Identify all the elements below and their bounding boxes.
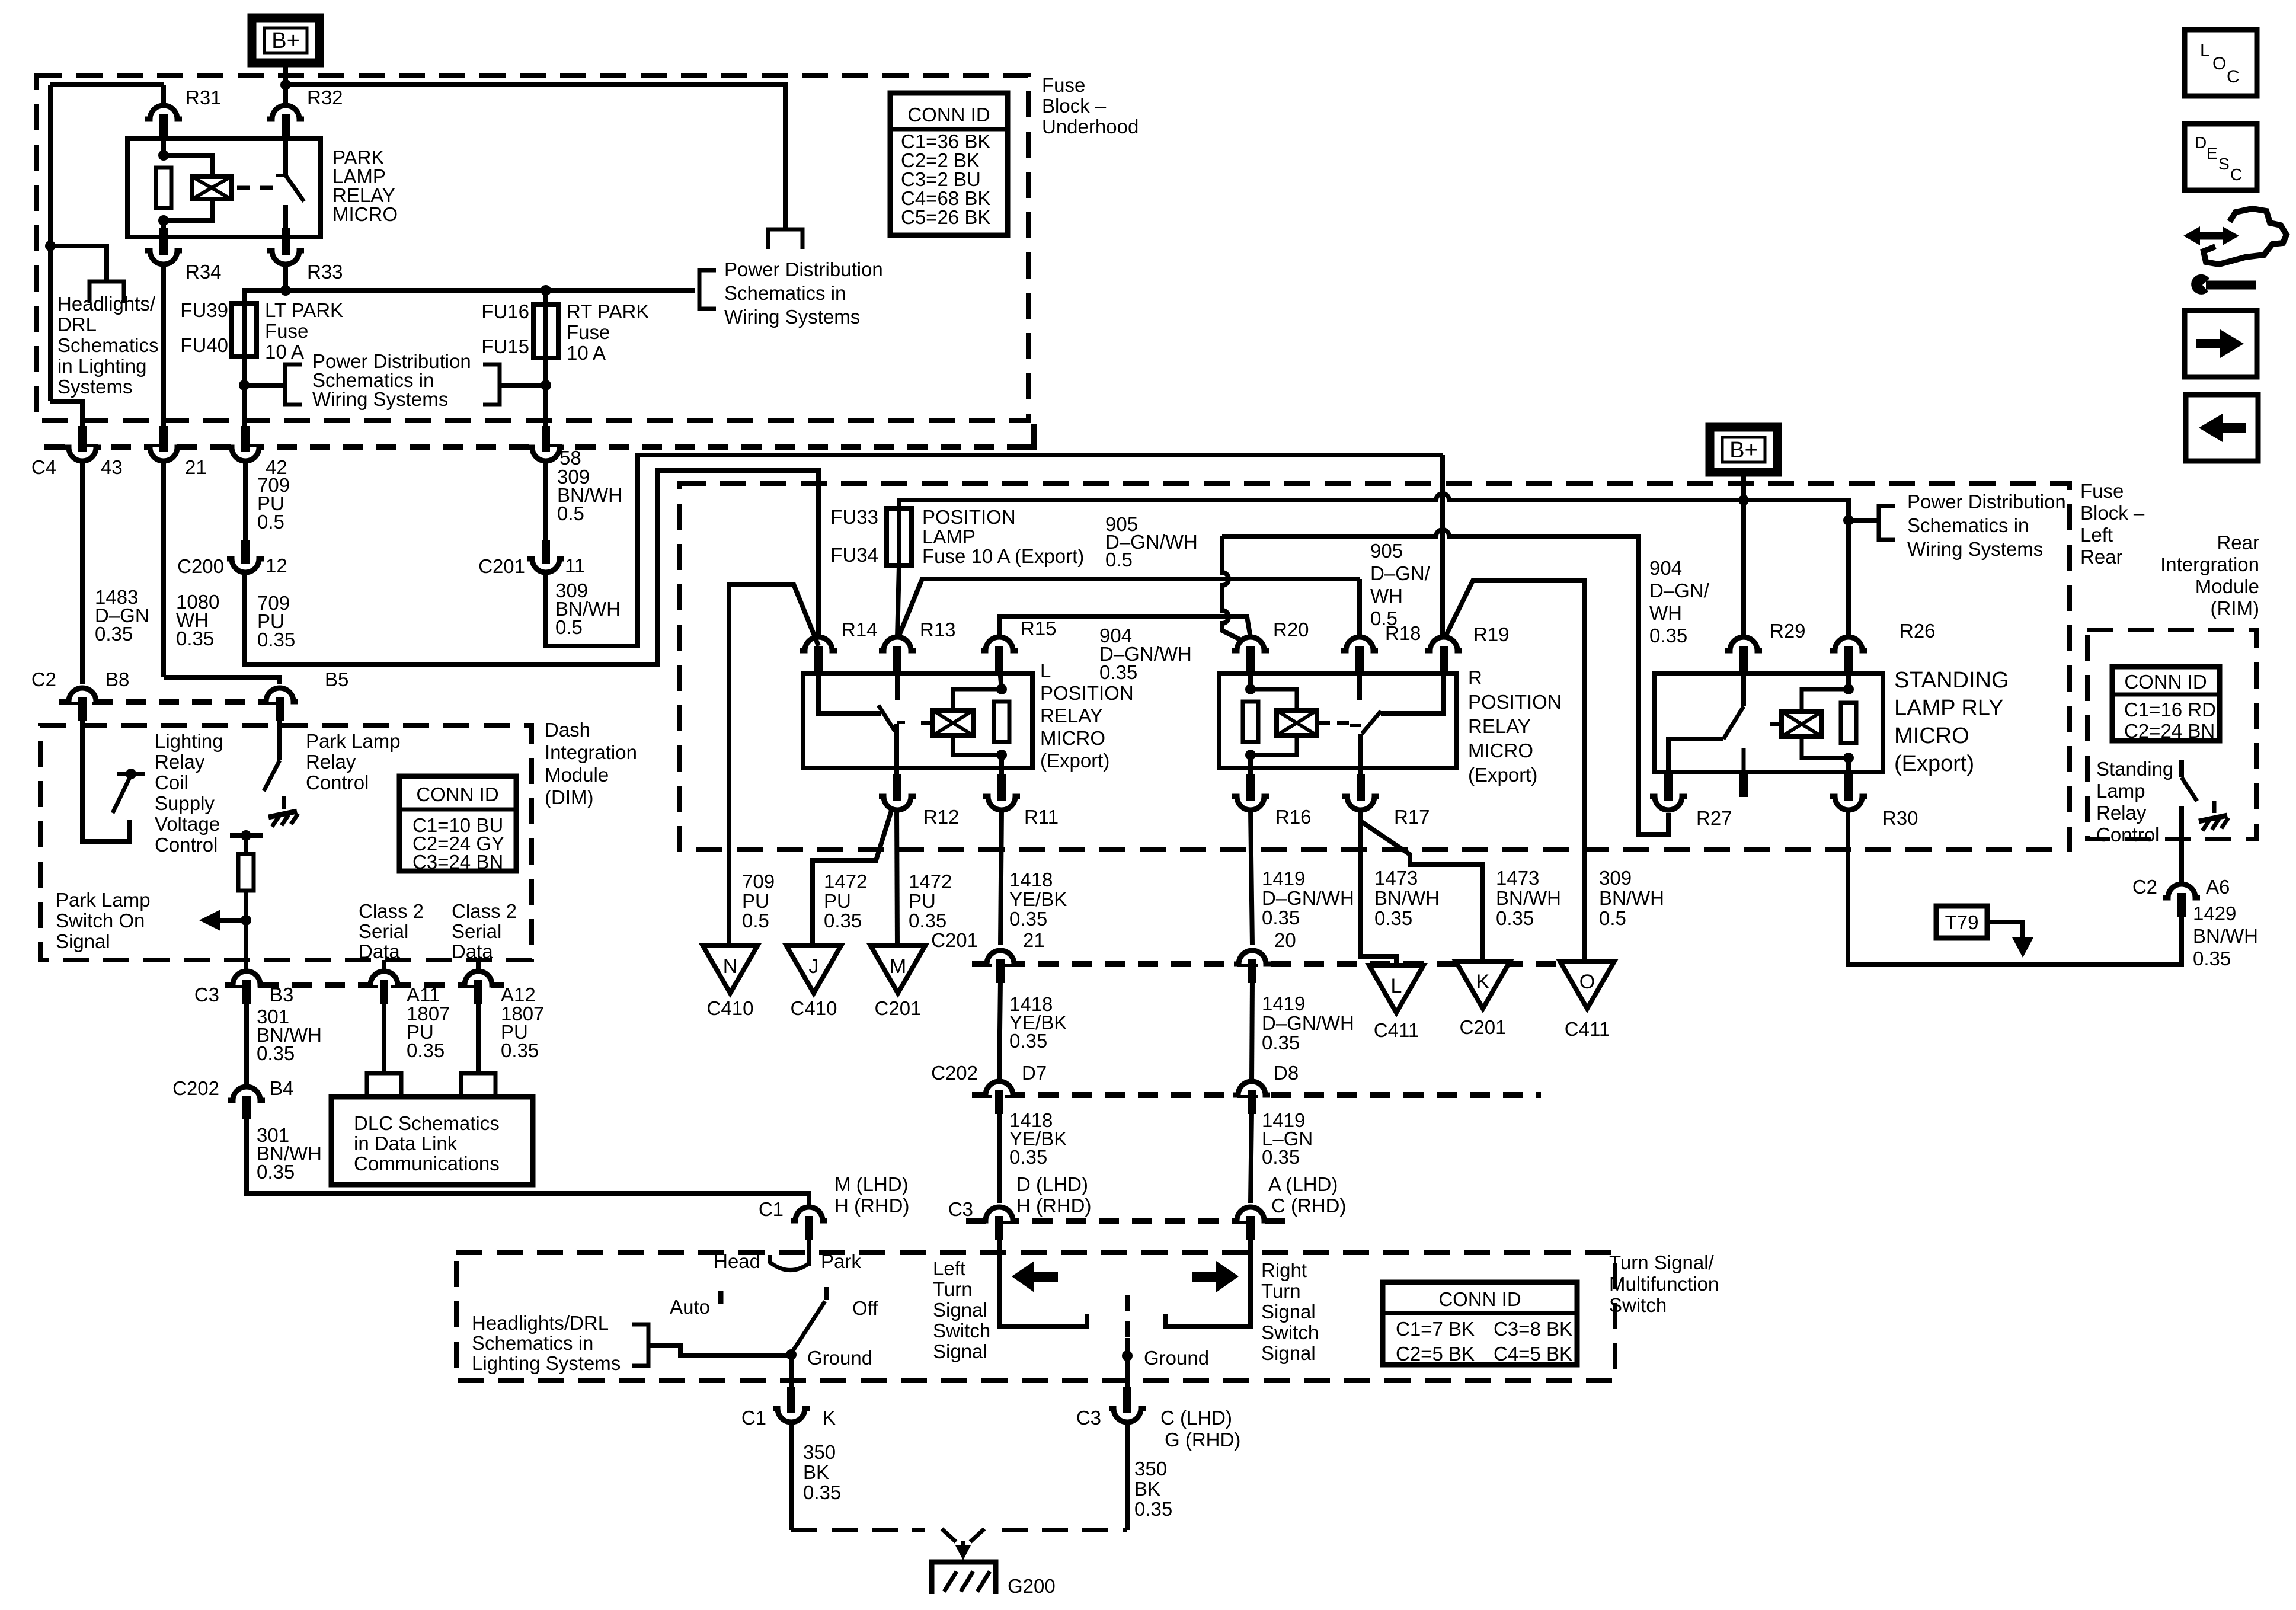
wire: left branch down to C4-43 bbox=[50, 401, 82, 441]
connector C4-42 bbox=[233, 447, 258, 460]
module box: Turn Signal/Multifunction Switch (dashed) bbox=[456, 1253, 1615, 1381]
wire fixed contact to R12 bbox=[894, 724, 899, 783]
svg-text:Fuse: Fuse bbox=[1042, 74, 1085, 96]
wire: right bracket to RT fuse wire bbox=[500, 383, 546, 388]
connector C202-D8 bbox=[1239, 1083, 1264, 1095]
svg-text:R26: R26 bbox=[1900, 620, 1936, 642]
svg-text:Head: Head bbox=[714, 1250, 760, 1272]
wire: FU15 down to junction bbox=[543, 358, 548, 408]
svg-text:BN/WH: BN/WH bbox=[1496, 887, 1561, 909]
wire 904 trunk with hops down to R20 bbox=[1222, 536, 1246, 642]
svg-text:FU39: FU39 bbox=[180, 299, 228, 321]
svg-text:STANDING: STANDING bbox=[1894, 668, 2009, 693]
svg-text:MICRO: MICRO bbox=[1040, 727, 1105, 749]
svg-text:PU: PU bbox=[909, 890, 936, 912]
wire: down to C4 row 58 bbox=[543, 385, 548, 441]
svg-text:C410: C410 bbox=[707, 997, 754, 1019]
svg-text:RELAY: RELAY bbox=[1040, 705, 1103, 726]
CONN ID table DIM bbox=[399, 776, 516, 871]
fuse POSITION LAMP FU33/FU34 bbox=[887, 508, 912, 565]
svg-text:C3: C3 bbox=[1076, 1407, 1101, 1429]
svg-text:M: M bbox=[890, 955, 906, 978]
svg-text:0.35: 0.35 bbox=[95, 623, 133, 645]
svg-text:R30: R30 bbox=[1882, 807, 1918, 829]
connector R27 bbox=[1656, 796, 1681, 809]
svg-text:BN/WH: BN/WH bbox=[1374, 887, 1440, 909]
wire R13 pin open end bbox=[895, 664, 900, 700]
triangle O (to C411) bbox=[1560, 961, 1614, 1009]
svg-text:Relay: Relay bbox=[155, 751, 205, 773]
svg-text:MICRO: MICRO bbox=[332, 203, 398, 225]
svg-text:DLC Schematics: DLC Schematics bbox=[354, 1112, 500, 1134]
svg-text:709: 709 bbox=[742, 870, 775, 892]
svg-text:R32: R32 bbox=[307, 87, 343, 108]
svg-text:0.5: 0.5 bbox=[1599, 907, 1626, 929]
connector R17 bbox=[1348, 796, 1373, 809]
bracket ] headlights/DRL bbox=[632, 1324, 648, 1366]
power symbol B+ (underhood) bbox=[252, 18, 319, 63]
svg-text:(RIM): (RIM) bbox=[2211, 597, 2259, 619]
connector C202-B4 bbox=[234, 1088, 259, 1100]
svg-text:Lighting: Lighting bbox=[155, 730, 223, 752]
junction dot below RT fuse bbox=[541, 380, 551, 391]
svg-text:Switch On: Switch On bbox=[56, 910, 145, 932]
connector R15 bbox=[987, 638, 1012, 651]
park lamp relay switch blade bbox=[264, 760, 280, 791]
ground stub DIM bbox=[282, 796, 286, 809]
svg-text:1472: 1472 bbox=[824, 870, 867, 892]
svg-text:C202: C202 bbox=[172, 1077, 219, 1099]
svg-text:43: 43 bbox=[101, 456, 123, 478]
svg-text:Block –: Block – bbox=[2080, 502, 2145, 524]
svg-text:0.35: 0.35 bbox=[824, 910, 862, 932]
svg-text:0.35: 0.35 bbox=[2193, 948, 2231, 969]
svg-text:10 A: 10 A bbox=[265, 341, 304, 363]
connector R31 bbox=[151, 107, 176, 119]
junction dot relay coil top bbox=[158, 150, 169, 161]
junction dot right ground bbox=[1122, 1350, 1133, 1361]
wire: FU40 to junction bbox=[242, 357, 247, 385]
svg-text:MICRO: MICRO bbox=[1468, 740, 1533, 761]
svg-text:Data: Data bbox=[452, 940, 493, 962]
svg-text:0.5: 0.5 bbox=[257, 511, 284, 533]
switch lower stub (NC) bbox=[1742, 748, 1746, 772]
svg-text:C201: C201 bbox=[931, 929, 978, 951]
svg-text:L: L bbox=[1040, 660, 1051, 681]
junction dots R relay bbox=[1245, 684, 1256, 694]
svg-text:R18: R18 bbox=[1385, 622, 1421, 644]
off-page bracket to Power Distribution (top) bbox=[768, 229, 802, 249]
connector C2-B8 bbox=[70, 689, 95, 702]
wire coil bottom to R11 bbox=[999, 755, 1004, 783]
wire: bus left toward R31 bbox=[50, 82, 164, 87]
svg-text:Serial: Serial bbox=[452, 920, 501, 942]
svg-text:Wiring Systems: Wiring Systems bbox=[312, 388, 448, 410]
ground symbol G200 bbox=[932, 1562, 996, 1594]
svg-text:C: C bbox=[2227, 67, 2240, 87]
svg-text:Power Distribution: Power Distribution bbox=[724, 258, 883, 280]
coil loop R relay bbox=[1251, 689, 1297, 710]
svg-text:Standing: Standing bbox=[2096, 758, 2173, 780]
park lamp switch-on terminal bar bbox=[230, 833, 263, 838]
icon box LOC bbox=[2185, 30, 2257, 96]
svg-text:Lighting Systems: Lighting Systems bbox=[472, 1352, 621, 1374]
wire B4 down and right to turn signal C1 bbox=[247, 1117, 809, 1208]
svg-text:Rear: Rear bbox=[2080, 546, 2123, 568]
wire 309 BN/WH below C201 to long bus bbox=[546, 455, 1443, 646]
icon car with arrows and wrench bbox=[2204, 209, 2287, 264]
wire 904: R15 up and right to R20 bbox=[999, 617, 1251, 638]
svg-text:Lamp: Lamp bbox=[2096, 780, 2145, 802]
wire 905 down to R18 bbox=[1357, 579, 1362, 638]
junction dots standing relay bbox=[1843, 684, 1854, 694]
wire C1 into head/park selector bbox=[807, 1237, 811, 1266]
dashed linkage right switch bbox=[1125, 1295, 1130, 1338]
lighting relay switch contact bar bbox=[117, 772, 145, 776]
svg-text:Rear: Rear bbox=[2217, 532, 2259, 553]
relay box: R POSITION RELAY MICRO bbox=[1219, 673, 1457, 768]
connector row C201 21/20 (dashed) bbox=[972, 961, 1612, 967]
module box: Fuse Block - Underhood (dashed) bbox=[36, 76, 1028, 421]
connector R20 bbox=[1238, 638, 1263, 651]
svg-text:S: S bbox=[2218, 155, 2230, 173]
connector C200-12 bbox=[233, 559, 258, 571]
wire 1080 WH from 21 down bbox=[161, 461, 166, 677]
wire R12 branch to J triangle bbox=[813, 811, 891, 946]
junction dot arrow bbox=[241, 915, 251, 926]
relay coil X symbol bbox=[192, 177, 231, 199]
junction dot RT fuse top bbox=[541, 285, 551, 296]
junction dot B+ bus left rear bbox=[1738, 495, 1749, 505]
svg-text:R16: R16 bbox=[1275, 806, 1312, 828]
svg-text:0.35: 0.35 bbox=[1099, 661, 1137, 683]
svg-text:D7: D7 bbox=[1022, 1062, 1047, 1084]
wire: top bus from B+ junction right bbox=[286, 85, 785, 229]
svg-text:C4=5 BK: C4=5 BK bbox=[1494, 1343, 1572, 1365]
connector C201-21 (mid) bbox=[988, 952, 1013, 964]
wire 21 down to C202-D7 bbox=[999, 981, 1000, 1082]
svg-text:Wiring Systems: Wiring Systems bbox=[1907, 538, 2043, 560]
junction dot switch ground bbox=[786, 1349, 797, 1360]
wire D8 down to turn signal A/C bbox=[1251, 1112, 1252, 1203]
wire: junction to left bracket bbox=[244, 383, 285, 388]
svg-text:POSITION: POSITION bbox=[1040, 682, 1134, 704]
ground V-break and arrow bbox=[942, 1529, 956, 1542]
junction dot at B+ bus bbox=[280, 79, 291, 90]
junction dot switch bar bbox=[126, 769, 136, 779]
svg-text:H (RHD): H (RHD) bbox=[1016, 1195, 1091, 1217]
svg-text:0.35: 0.35 bbox=[1009, 908, 1047, 930]
svg-text:LAMP: LAMP bbox=[922, 526, 976, 548]
connector 20 (mid) bbox=[1240, 952, 1265, 964]
junction dot relay coil bottom bbox=[158, 215, 169, 226]
svg-text:T79: T79 bbox=[1945, 911, 1979, 933]
svg-text:R11: R11 bbox=[1024, 806, 1059, 828]
svg-text:Park: Park bbox=[821, 1250, 861, 1272]
svg-text:RELAY: RELAY bbox=[1468, 715, 1531, 737]
905 branch diagonal at R13 bbox=[897, 579, 1360, 640]
CONN ID table turn signal bbox=[1383, 1282, 1577, 1365]
svg-text:L: L bbox=[2200, 41, 2210, 60]
wire left turn signal into switch bbox=[999, 1237, 1087, 1326]
svg-text:Park Lamp: Park Lamp bbox=[306, 730, 401, 752]
wire R20 pin to resistor top bbox=[1248, 664, 1253, 689]
connector R13 bbox=[885, 638, 910, 651]
svg-text:B5: B5 bbox=[325, 668, 348, 690]
svg-text:Signal: Signal bbox=[1261, 1342, 1316, 1364]
wire to headlights bracket bbox=[648, 1346, 791, 1356]
wire right ground bbox=[1125, 1338, 1130, 1400]
svg-text:Control: Control bbox=[2096, 824, 2159, 846]
wire D7 down to turn signal C3 bbox=[997, 1112, 1002, 1203]
coil loop L relay bbox=[953, 689, 1002, 710]
relay box: PARK LAMP RELAY MICRO bbox=[127, 139, 321, 237]
wire: B+ down to bus junction bbox=[283, 63, 288, 95]
svg-text:0.35: 0.35 bbox=[1009, 1030, 1047, 1052]
svg-text:C: C bbox=[2230, 165, 2242, 184]
wire R17 straight down to L triangle bbox=[1361, 809, 1396, 965]
svg-text:Right: Right bbox=[1261, 1259, 1307, 1281]
connector C3-B3 bbox=[234, 972, 259, 985]
svg-text:H (RHD): H (RHD) bbox=[834, 1195, 909, 1217]
connector R11 bbox=[989, 796, 1014, 809]
svg-text:in Data Link: in Data Link bbox=[354, 1132, 458, 1154]
off-page bracket Headlights/DRL bbox=[89, 281, 124, 303]
svg-text:POSITION: POSITION bbox=[1468, 691, 1562, 713]
connector row C4 (dashed) bbox=[44, 444, 1018, 450]
wire: FU39 branch down from junction to C4 row 42 bbox=[242, 385, 247, 441]
svg-text:Schematics in: Schematics in bbox=[1907, 514, 2029, 536]
wire: R31 pin into relay bbox=[161, 135, 166, 155]
switch tick R relay bbox=[1350, 724, 1361, 727]
svg-text:DRL: DRL bbox=[57, 313, 97, 335]
switch blade R relay bbox=[1362, 711, 1381, 734]
svg-text:12: 12 bbox=[266, 555, 287, 577]
svg-text:C2=5 BK: C2=5 BK bbox=[1396, 1343, 1475, 1365]
wire resistor to R30 bbox=[1846, 758, 1851, 783]
svg-text:R13: R13 bbox=[920, 619, 956, 641]
svg-text:LT PARK: LT PARK bbox=[265, 299, 343, 321]
svg-text:R14: R14 bbox=[842, 619, 878, 641]
svg-text:Headlights/DRL: Headlights/DRL bbox=[472, 1312, 609, 1334]
wire: B+ bus left to POSITION LAMP fuse bbox=[899, 494, 1744, 508]
svg-text:C201: C201 bbox=[875, 997, 922, 1019]
wire A12 stub above bbox=[476, 960, 481, 972]
svg-text:0.35: 0.35 bbox=[176, 628, 214, 649]
svg-text:Class 2: Class 2 bbox=[359, 900, 424, 922]
coil X standing relay bbox=[1782, 712, 1822, 737]
connector C2-A6 bbox=[2169, 885, 2194, 898]
svg-text:C201: C201 bbox=[1460, 1016, 1507, 1038]
triangle L (to C411) bbox=[1369, 965, 1424, 1013]
wire: coil branch top bbox=[164, 155, 212, 176]
ground rake DIM bbox=[268, 811, 297, 817]
svg-text:BN/WH: BN/WH bbox=[2193, 925, 2258, 947]
svg-text:M (LHD): M (LHD) bbox=[834, 1173, 909, 1195]
fuse RT PARK FU16/FU15 bbox=[533, 305, 558, 358]
wire RIM control down to C2 bbox=[2179, 806, 2184, 884]
svg-text:(DIM): (DIM) bbox=[545, 786, 593, 808]
svg-text:C202: C202 bbox=[931, 1062, 978, 1084]
svg-text:R33: R33 bbox=[307, 261, 343, 283]
svg-text:C (LHD): C (LHD) bbox=[1160, 1407, 1232, 1429]
connector R29 bbox=[1731, 638, 1756, 651]
svg-text:C1=16 RD: C1=16 RD bbox=[2124, 699, 2216, 721]
svg-text:0.35: 0.35 bbox=[257, 1161, 295, 1183]
coil X R relay bbox=[1277, 710, 1317, 735]
svg-text:CONN ID: CONN ID bbox=[1438, 1288, 1521, 1310]
wire: fuse bus right to FU16 bbox=[286, 290, 546, 305]
auto-off switch blade bbox=[791, 1301, 825, 1353]
svg-text:C3: C3 bbox=[948, 1198, 973, 1220]
svg-text:Schematics in: Schematics in bbox=[724, 282, 846, 304]
connector row C3/C202 (dashed) bbox=[225, 982, 504, 988]
svg-text:C1=7 BK: C1=7 BK bbox=[1396, 1318, 1475, 1340]
svg-text:Multifunction: Multifunction bbox=[1609, 1273, 1719, 1295]
connector R12 bbox=[885, 796, 910, 809]
relay box: L POSITION RELAY MICRO bbox=[803, 673, 1032, 768]
resistor R relay bbox=[1243, 702, 1258, 742]
wire B3 down to C202 bbox=[244, 1001, 249, 1087]
svg-text:Switch: Switch bbox=[933, 1320, 990, 1342]
resistor L relay bbox=[994, 702, 1009, 742]
reference box T79 with arrow bbox=[1936, 906, 1987, 938]
svg-text:0.5: 0.5 bbox=[1105, 549, 1133, 571]
svg-text:Integration: Integration bbox=[545, 741, 637, 763]
svg-text:Control: Control bbox=[306, 772, 369, 793]
junction dot fuse bus bbox=[280, 285, 291, 296]
CONN ID table RIM bbox=[2112, 667, 2220, 741]
svg-text:350: 350 bbox=[1134, 1458, 1167, 1480]
svg-text:C411: C411 bbox=[1565, 1018, 1610, 1040]
svg-text:0.35: 0.35 bbox=[1262, 1146, 1300, 1168]
svg-text:R20: R20 bbox=[1273, 619, 1309, 641]
wire 309 BN/WH from 58 to C201 bbox=[543, 461, 548, 545]
svg-text:(Export): (Export) bbox=[1894, 751, 1974, 776]
svg-text:Left: Left bbox=[933, 1257, 965, 1279]
svg-text:R19: R19 bbox=[1473, 623, 1510, 645]
connector A/C (right turn) bbox=[1238, 1208, 1263, 1221]
svg-text:Turn: Turn bbox=[933, 1278, 973, 1300]
svg-text:1472: 1472 bbox=[909, 870, 952, 892]
svg-text:Fuse 10 A (Export): Fuse 10 A (Export) bbox=[922, 545, 1084, 567]
connector C4-58 bbox=[533, 447, 558, 460]
svg-text:O: O bbox=[2212, 54, 2226, 73]
svg-text:0.5: 0.5 bbox=[742, 910, 769, 932]
svg-text:FU15: FU15 bbox=[481, 335, 529, 357]
svg-text:0.5: 0.5 bbox=[557, 502, 584, 524]
svg-text:Off: Off bbox=[852, 1297, 878, 1319]
wire 1483 D-GN from 43 to C2-B8 bbox=[80, 461, 85, 684]
svg-text:YE/BK: YE/BK bbox=[1009, 888, 1067, 910]
svg-text:C3=24 BN: C3=24 BN bbox=[412, 851, 503, 873]
svg-text:Turn Signal/: Turn Signal/ bbox=[1609, 1251, 1715, 1273]
wire 709 PU below C200 bbox=[245, 470, 818, 664]
svg-text:0.5: 0.5 bbox=[555, 616, 583, 638]
svg-text:R: R bbox=[1468, 667, 1482, 689]
bracket DLC A12 bbox=[461, 1073, 495, 1094]
svg-text:D–GN/: D–GN/ bbox=[1370, 562, 1431, 584]
svg-text:C4: C4 bbox=[31, 456, 56, 478]
wire R18 pin open end bbox=[1357, 664, 1362, 700]
svg-text:L: L bbox=[1391, 975, 1402, 997]
wire 904 trunk right to R27 drop bbox=[1222, 530, 1668, 834]
svg-text:Park Lamp: Park Lamp bbox=[56, 889, 151, 911]
connector A12 bbox=[466, 972, 491, 985]
svg-text:Fuse: Fuse bbox=[2080, 480, 2124, 502]
relay coil resistor bbox=[156, 168, 171, 208]
wire A11 stub above bbox=[382, 960, 386, 972]
icon box arrow left bbox=[2186, 395, 2258, 461]
svg-text:B+: B+ bbox=[1729, 438, 1758, 463]
bracket [ top power dist text bbox=[699, 270, 716, 309]
coil stub left bbox=[921, 721, 933, 725]
bracket ] right of center text bbox=[483, 364, 500, 405]
svg-text:C1: C1 bbox=[741, 1407, 766, 1429]
wire pivot to R17 bbox=[1358, 734, 1363, 783]
switch blade standing relay bbox=[1723, 706, 1744, 739]
svg-text:0.35: 0.35 bbox=[407, 1039, 445, 1061]
module box: Rear Integration Module RIM (dashed) bbox=[2087, 630, 2256, 839]
connector C4-21 bbox=[151, 447, 176, 460]
svg-text:Supply: Supply bbox=[155, 792, 215, 814]
box: DLC Schematics in Data Link Communications bbox=[331, 1097, 533, 1185]
wire fuse down to R13 bbox=[897, 565, 899, 638]
svg-text:in Lighting: in Lighting bbox=[57, 355, 146, 377]
wire resistor down bbox=[244, 891, 248, 972]
wire: R31 drop bbox=[161, 85, 166, 105]
svg-text:Signal: Signal bbox=[933, 1299, 987, 1321]
wire K down bbox=[789, 1421, 794, 1530]
svg-text:N: N bbox=[723, 955, 738, 978]
connector R18 bbox=[1347, 638, 1372, 651]
svg-text:0.35: 0.35 bbox=[1134, 1498, 1172, 1520]
wire: R34 down to C4 row 21 bbox=[161, 264, 166, 441]
wire: R33 down to fuse bus bbox=[283, 264, 288, 290]
svg-text:C410: C410 bbox=[791, 997, 837, 1019]
svg-text:WH: WH bbox=[1649, 602, 1682, 624]
svg-text:PU: PU bbox=[824, 890, 851, 912]
svg-text:0.35: 0.35 bbox=[1262, 907, 1300, 929]
wire 309: R19 diagonal to O-wire bbox=[1444, 581, 1584, 960]
wire: coil branch bottom bbox=[164, 200, 212, 220]
svg-text:B8: B8 bbox=[105, 668, 129, 690]
svg-text:309: 309 bbox=[1599, 867, 1632, 889]
svg-text:PU: PU bbox=[742, 890, 769, 912]
wire elbow to B5 bbox=[164, 677, 280, 684]
junction dot terminal bar bbox=[241, 830, 251, 841]
wire: fuse bus left to FU39 bbox=[244, 290, 286, 303]
connector C3-C/G bbox=[1115, 1409, 1140, 1421]
svg-text:Schematics in: Schematics in bbox=[472, 1332, 593, 1354]
svg-text:0.35: 0.35 bbox=[1496, 907, 1534, 929]
wire: B+ bus right bbox=[1744, 500, 1849, 638]
svg-text:C1: C1 bbox=[759, 1198, 784, 1220]
wire: R32 drop from junction bbox=[283, 95, 288, 105]
svg-text:1473: 1473 bbox=[1496, 867, 1539, 889]
svg-text:0.35: 0.35 bbox=[803, 1481, 841, 1503]
wire to resistor bbox=[244, 836, 248, 854]
bracket [ to Power Distribution center bbox=[285, 364, 302, 405]
wire: left drop to Headlights/DRL branch bbox=[48, 85, 53, 401]
head/park selector curve bbox=[770, 1255, 809, 1270]
svg-text:Systems: Systems bbox=[57, 376, 133, 398]
wire C down bbox=[1125, 1421, 1130, 1530]
power symbol B+ (left rear) bbox=[1710, 427, 1777, 472]
connector R19 bbox=[1431, 638, 1456, 651]
svg-text:Switch: Switch bbox=[1609, 1294, 1667, 1316]
svg-text:0.35: 0.35 bbox=[909, 910, 946, 932]
